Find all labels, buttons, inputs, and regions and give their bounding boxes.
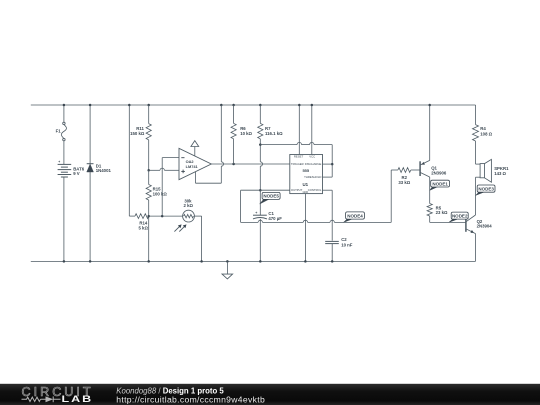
svg-text:1N4001: 1N4001 xyxy=(96,168,112,173)
svg-text:143 Ω: 143 Ω xyxy=(494,171,506,176)
svg-text:LM741: LM741 xyxy=(186,164,199,169)
svg-text:150 kΩ: 150 kΩ xyxy=(130,131,145,136)
svg-text:9 V: 9 V xyxy=(73,171,80,176)
svg-text:100 kΩ: 100 kΩ xyxy=(153,191,168,196)
svg-text:2 kΩ: 2 kΩ xyxy=(183,203,193,208)
svg-text:+: + xyxy=(58,160,60,164)
svg-text:5 kΩ: 5 kΩ xyxy=(138,225,148,230)
svg-text:THRESHOLD: THRESHOLD xyxy=(304,175,321,179)
svg-text:108 Ω: 108 Ω xyxy=(480,131,492,136)
svg-text:10 kΩ: 10 kΩ xyxy=(240,131,252,136)
svg-text:10 nF: 10 nF xyxy=(341,242,353,247)
svg-text:33 kΩ: 33 kΩ xyxy=(398,180,410,185)
svg-text:R4: R4 xyxy=(480,126,486,131)
svg-text:NODE4: NODE4 xyxy=(347,213,363,218)
svg-text:U1: U1 xyxy=(302,182,308,187)
svg-text:555: 555 xyxy=(302,168,309,173)
svg-text:LAB: LAB xyxy=(62,395,94,405)
svg-text:NODE1: NODE1 xyxy=(432,181,448,186)
svg-text:CONTROL: CONTROL xyxy=(308,188,322,192)
svg-text:23 kΩ: 23 kΩ xyxy=(436,210,448,215)
svg-text:RESET: RESET xyxy=(294,154,304,158)
svg-text:F1: F1 xyxy=(56,129,62,134)
svg-text:NODE3: NODE3 xyxy=(478,187,494,192)
svg-text:116.1 kΩ: 116.1 kΩ xyxy=(265,131,283,136)
svg-text:http://circuitlab.com/cccmn9w4: http://circuitlab.com/cccmn9w4evktb xyxy=(116,394,265,404)
svg-text:NODE2: NODE2 xyxy=(452,213,468,218)
svg-text:TRIGGER: TRIGGER xyxy=(291,162,304,166)
svg-text:2N3906: 2N3906 xyxy=(431,170,447,175)
svg-text:2N3904: 2N3904 xyxy=(477,224,493,229)
svg-text:+: + xyxy=(255,211,257,215)
svg-text:470 µF: 470 µF xyxy=(268,216,282,221)
svg-text:OUTPUT: OUTPUT xyxy=(291,188,303,192)
svg-text:VCC: VCC xyxy=(309,154,315,158)
svg-text:NODE5: NODE5 xyxy=(263,194,279,199)
svg-text:DISCHARGE: DISCHARGE xyxy=(305,162,322,166)
